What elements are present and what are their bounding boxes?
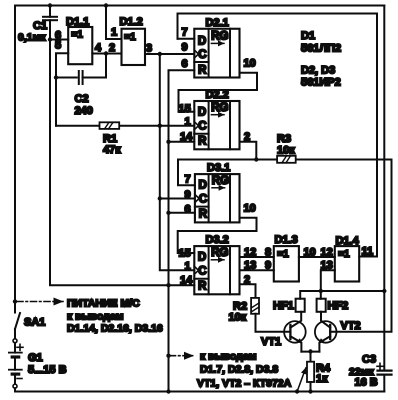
wire D3.1 R pin 6: [169, 212, 195, 214]
wire left supply branch: [14, 6, 16, 313]
wire D1.1 pin 6: [50, 39, 68, 41]
wire R2 to VT1 base: [256, 314, 291, 332]
wire to R4: [310, 352, 312, 362]
svg-text:6: 6: [185, 204, 191, 216]
node clock / D3.1 C: [158, 196, 162, 200]
node clock tap: [158, 52, 162, 56]
svg-text:9: 9: [265, 260, 271, 272]
svg-text:R: R: [198, 64, 207, 76]
svg-text:561ЛП2: 561ЛП2: [301, 43, 341, 55]
RG arrow: [211, 259, 224, 261]
svg-text:C: C: [199, 194, 207, 206]
svg-text:9: 9: [182, 42, 188, 54]
wire VT2 base from R3: [330, 160, 391, 332]
svg-text:15: 15: [179, 103, 191, 115]
svg-text:D2.1: D2.1: [206, 17, 229, 29]
wire D1.2 pin 1 from rail: [106, 6, 122, 40]
svg-text:D1.4: D1.4: [336, 235, 360, 247]
wire feedback top line: [178, 14, 378, 257]
svg-text:6: 6: [182, 58, 188, 70]
C3 plus sign: [377, 363, 383, 369]
svg-text:=1: =1: [71, 30, 83, 41]
svg-text:VT2: VT2: [341, 320, 361, 332]
svg-text:15: 15: [179, 248, 191, 260]
wire D3.2 R pin 14 ground line: [169, 284, 195, 286]
svg-text:к выводам: к выводам: [67, 311, 124, 323]
svg-text:11: 11: [362, 246, 374, 258]
speaker HF1: [296, 299, 305, 312]
svg-text:HF1: HF1: [273, 300, 294, 312]
svg-text:RG: RG: [211, 247, 228, 259]
svg-text:10к: 10к: [277, 145, 295, 157]
svg-text:D: D: [199, 180, 207, 192]
svg-text:4: 4: [95, 42, 102, 54]
svg-text:C1: C1: [33, 20, 47, 32]
svg-text:2: 2: [109, 42, 115, 54]
wire D2.1 pin10 to D2.2 pin15: [179, 73, 258, 112]
svg-text:240: 240: [75, 105, 93, 117]
wire D2.1 pin 7: [178, 38, 195, 40]
wire ground distribution (C1 bottom down left side): [50, 40, 169, 286]
wire reset net vertical: [169, 70, 195, 391]
transistor Q VT2: [315, 312, 337, 352]
wire HF common to supply: [300, 291, 384, 299]
svg-text:D1.1: D1.1: [66, 16, 89, 28]
svg-text:C: C: [198, 120, 206, 132]
svg-text:R3: R3: [277, 133, 291, 145]
wire D2.2 R pin 14: [169, 141, 195, 143]
svg-text:D1.14, D2.16, D3.16: D1.14, D2.16, D3.16: [67, 323, 163, 335]
wire right supply vertical: [383, 6, 385, 371]
wire top supply rail: [15, 5, 384, 7]
wire clock net vertical: [160, 54, 195, 270]
svg-text:1: 1: [185, 261, 191, 273]
wire D3.1 pin9 clock: [160, 198, 195, 200]
IC register D3.1: [195, 174, 240, 222]
svg-text:D1.2: D1.2: [120, 16, 143, 28]
node HF line / supply: [382, 289, 386, 293]
svg-text:RG: RG: [212, 175, 229, 187]
svg-text:5...15 В: 5...15 В: [28, 364, 67, 376]
svg-text:D3.2: D3.2: [206, 234, 229, 246]
svg-text:VT1: VT1: [261, 336, 281, 348]
wire D2.2 pin2 node to R3 and D3.1 pin7: [240, 142, 257, 160]
resistor R3: [277, 156, 296, 163]
node D1.1 pin6 / ground: [48, 37, 52, 41]
node C2 / node A junction: [54, 75, 58, 79]
svg-text:R: R: [199, 209, 208, 221]
battery G1: [9, 343, 22, 392]
svg-text:12: 12: [321, 247, 333, 259]
svg-text:3: 3: [146, 43, 152, 55]
svg-text:D: D: [198, 35, 206, 47]
svg-text:=1: =1: [338, 249, 350, 260]
switch SA1: [13, 313, 20, 343]
IC register D3.2: [194, 246, 239, 294]
IC register D2.2: [194, 101, 239, 149]
capacitor C1: [43, 6, 57, 40]
node top rail / D1.2 pin1 junction: [104, 3, 108, 7]
svg-text:SA1: SA1: [24, 317, 45, 329]
wire emitters common: [301, 351, 319, 353]
wire D1.1 pin 5 to node A: [56, 53, 68, 125]
RG arrow: [212, 187, 225, 189]
svg-text:RG: RG: [211, 102, 228, 114]
svg-text:D3.1: D3.1: [207, 162, 230, 174]
svg-text:10: 10: [304, 247, 316, 259]
svg-text:1к: 1к: [316, 373, 328, 385]
svg-text:7: 7: [185, 174, 191, 186]
svg-text:RG: RG: [211, 31, 228, 43]
wire bottom rail: [15, 391, 384, 393]
svg-text:10: 10: [244, 58, 256, 70]
wire D1.3 pin10 to D1.4 pin12: [299, 256, 335, 258]
svg-text:D2, D3: D2, D3: [301, 65, 335, 77]
node reset / ground line: [166, 283, 170, 287]
svg-text:D1.3: D1.3: [275, 234, 298, 246]
svg-text:16 В: 16 В: [355, 377, 378, 389]
svg-text:D2.2: D2.2: [206, 89, 229, 101]
svg-text:C: C: [198, 266, 206, 278]
node power arrow tap: [13, 299, 17, 303]
svg-text:14: 14: [180, 131, 193, 143]
svg-text:D1: D1: [301, 30, 315, 42]
node HF2 / D1.4 pin13: [319, 289, 323, 293]
wire D1.2 pin3 output to D2.1 pin9: [145, 53, 194, 55]
node top rail / C1 junction: [48, 3, 52, 7]
svg-text:561ИР2: 561ИР2: [301, 77, 341, 89]
node ground arrow tap: [166, 354, 170, 358]
wire D3.2 pin12 to D1.3 pin8: [240, 256, 274, 258]
svg-text:D1.7, D2.8, D3.8: D1.7, D2.8, D3.8: [200, 364, 278, 376]
op-amp U (XOR gate) D1.1: [68, 27, 92, 64]
svg-text:7: 7: [182, 27, 188, 39]
svg-text:R: R: [198, 281, 207, 293]
svg-text:=1: =1: [277, 249, 289, 260]
svg-text:10к: 10к: [229, 312, 247, 324]
node clock / D2.2 C: [158, 124, 162, 128]
G1 plus sign: [17, 344, 23, 350]
transistor Q VT1: [284, 312, 306, 352]
svg-text:HF2: HF2: [328, 300, 349, 312]
resistor R4 (trimmer): [297, 362, 314, 392]
svg-text:C3: C3: [362, 354, 376, 366]
svg-text:C2: C2: [75, 93, 89, 105]
op-amp U (XOR gate) D1.4: [335, 246, 359, 281]
svg-text:14: 14: [180, 275, 193, 287]
svg-text:=1: =1: [124, 32, 136, 43]
G1 minus sign: [17, 378, 22, 380]
node R4 wiper to rail: [295, 389, 299, 393]
wire D1.1 pin4 to D1.2 pin2: [92, 53, 121, 55]
resistor R1: [56, 122, 194, 129]
node reset to bottom rail: [166, 389, 170, 393]
node R4 bottom to rail: [308, 389, 312, 393]
wire D3.2 pin13 to D1.3 pin9: [240, 269, 274, 271]
svg-text:47к: 47к: [103, 144, 121, 156]
svg-text:VT1, VT2 – КТ972А: VT1, VT2 – КТ972А: [197, 378, 292, 390]
svg-text:1: 1: [111, 27, 117, 39]
wire D3.1 pin10 to D3.2 pin15: [178, 218, 257, 253]
svg-text:D: D: [198, 107, 206, 119]
svg-text:ПИТАНИЕ М/С: ПИТАНИЕ М/С: [67, 298, 140, 310]
wire D3.2 pin2 to R2: [240, 284, 256, 298]
svg-text:5: 5: [55, 40, 61, 52]
svg-text:R: R: [198, 136, 207, 148]
svg-text:G1: G1: [28, 352, 43, 364]
op-amp U (XOR gate) D1.2: [122, 29, 146, 65]
capacitor C2: [56, 54, 106, 85]
svg-text:10: 10: [244, 203, 256, 215]
RG arrow: [211, 114, 224, 116]
svg-text:1: 1: [185, 116, 191, 128]
node emitters: [308, 349, 312, 353]
node C2 tap on pin4-pin2 wire: [104, 51, 108, 55]
capacitor C3: [378, 371, 392, 392]
svg-text:0,1мк: 0,1мк: [18, 32, 46, 44]
svg-text:8: 8: [265, 247, 271, 259]
wire ground arrow (dash-dot): [171, 355, 194, 357]
node reset / D3.1 R: [166, 211, 170, 215]
resistor R2: [251, 298, 259, 314]
speaker HF2: [317, 299, 326, 312]
svg-text:к выводам: к выводам: [200, 351, 257, 363]
wire D1.4 pin13 from HF2 top: [321, 270, 335, 299]
wire power arrow (dash-dot): [17, 301, 63, 303]
svg-text:C: C: [198, 49, 206, 61]
RG arrow: [211, 42, 224, 44]
op-amp U (XOR gate) D1.3: [274, 246, 299, 281]
node R3 branch: [254, 157, 258, 161]
node reset / D2.2 R: [166, 140, 170, 144]
svg-text:D: D: [198, 252, 206, 264]
wire D1.4 pin11 output to feedback: [359, 256, 377, 258]
IC register D2.1: [194, 29, 239, 78]
